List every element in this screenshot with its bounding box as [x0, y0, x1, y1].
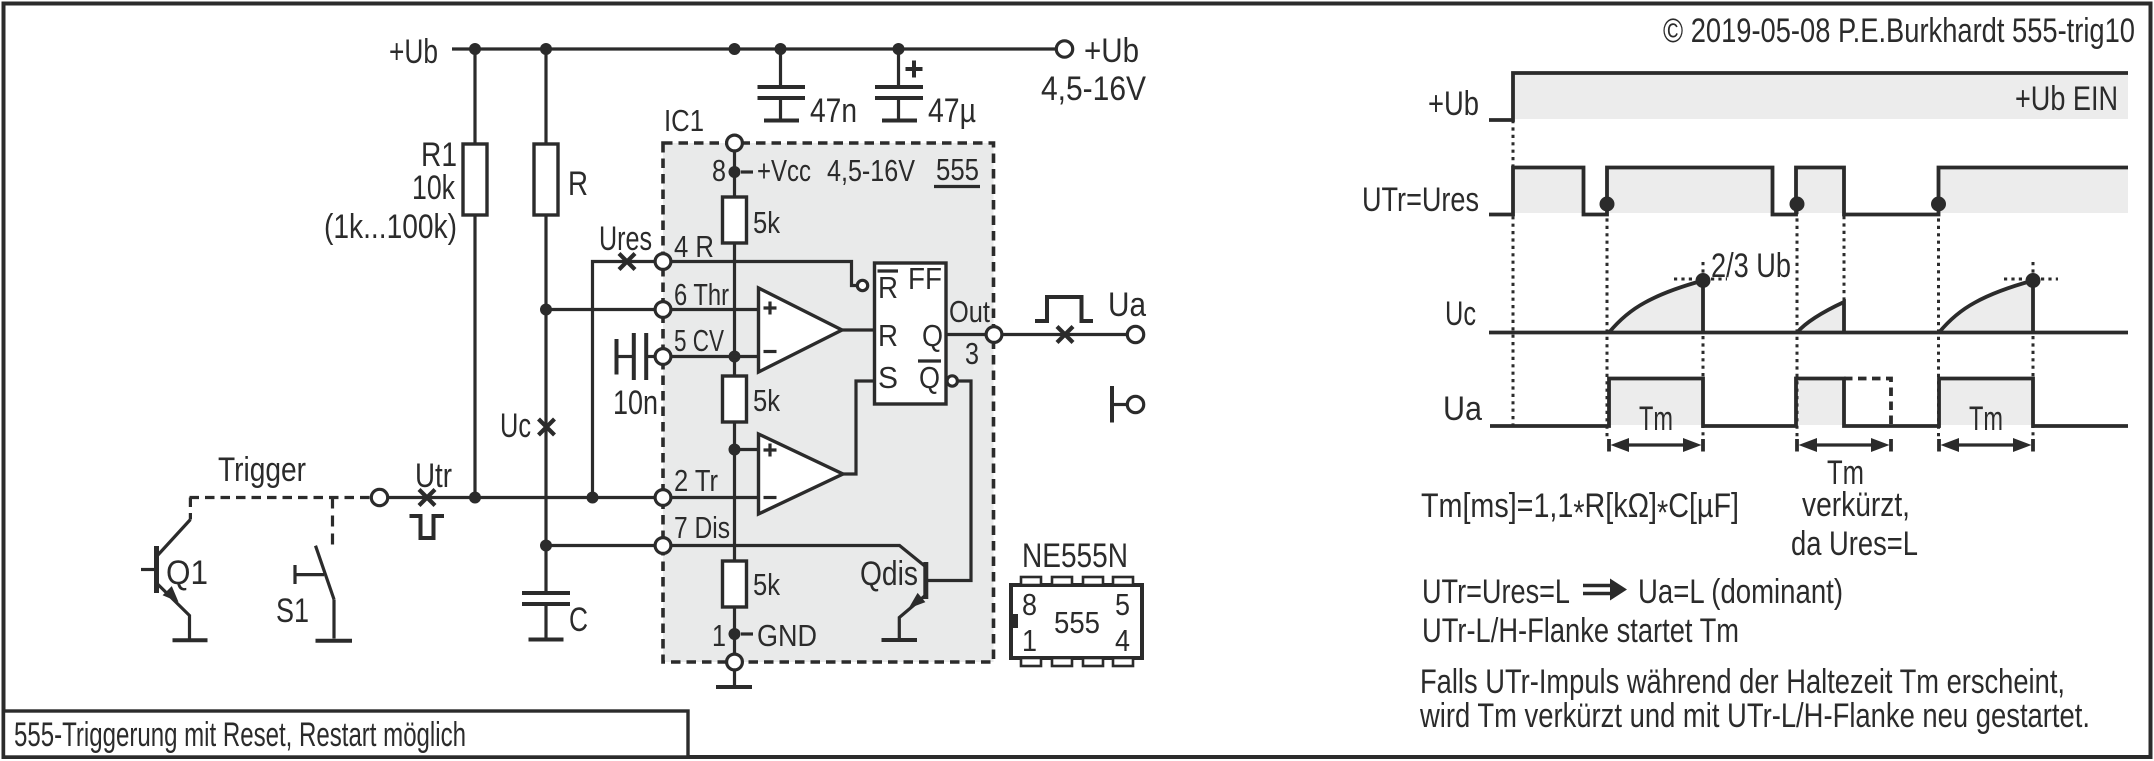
terminal Ua [1127, 326, 1143, 342]
R1 value labels [324, 136, 457, 246]
svg-text:(1k...100k): (1k...100k) [324, 208, 457, 246]
junction rail-47n [775, 43, 787, 55]
svg-text:UTr=Ures: UTr=Ures [1362, 181, 1479, 219]
text UTr=Ures=L implies [1422, 573, 1843, 611]
waveform Uc curve 2 [1797, 302, 1844, 333]
resistor 5k middle [723, 376, 747, 561]
capacitor C [522, 593, 570, 640]
svg-text:5k: 5k [753, 567, 780, 602]
svg-text:8: 8 [1022, 587, 1037, 622]
dotted 2/3 level right [2004, 278, 2058, 281]
bubble Q-bar output [947, 376, 957, 386]
pin 6 circle [655, 302, 671, 318]
positive pulse symbol [1035, 297, 1093, 321]
junction trigger-R1 [469, 492, 481, 504]
pin 8 labels [712, 152, 980, 188]
svg-text:Uc: Uc [500, 407, 531, 445]
svg-text:wird Tm verkürzt und mit UTr-L: wird Tm verkürzt und mit UTr-L/H-Flanke … [1419, 697, 2090, 735]
svg-text:+Vcc: +Vcc [757, 153, 811, 188]
svg-text:2/3 Ub: 2/3 Ub [1711, 247, 1791, 285]
svg-text:+Ub: +Ub [1084, 32, 1139, 70]
waveform Uc fill [1609, 281, 2033, 333]
capacitor 10n [617, 333, 656, 380]
terminal trigger input [371, 489, 387, 505]
waveform Uc curve 3 [1939, 281, 2033, 333]
wire comp2 out to FF S [843, 381, 875, 474]
svg-text:Ua=L (dominant): Ua=L (dominant) [1638, 573, 1843, 611]
dotted guide 1844 [1843, 216, 1846, 303]
svg-text:Q: Q [922, 318, 943, 353]
dot UTr edge 3 [1931, 197, 1946, 212]
svg-text:Qdis: Qdis [860, 555, 918, 593]
wire pin6 to comparator [670, 308, 758, 311]
svg-text:S1: S1 [276, 592, 309, 630]
dot Uc 2/3 right [2026, 273, 2041, 288]
dotted guide 1703 [1702, 262, 1705, 440]
junction R-Thr [540, 304, 552, 316]
arrow Tm 1 [1609, 438, 1703, 452]
junction rail-47u [893, 43, 905, 55]
waveform UTr=Ures [1489, 168, 2128, 215]
ground Q1 [173, 638, 208, 642]
svg-text:47n: 47n [810, 92, 857, 130]
svg-text:+Ub EIN: +Ub EIN [2015, 80, 2118, 118]
IC1 dashed box body [663, 143, 994, 662]
svg-text:Q: Q [919, 360, 940, 395]
waveform Ua fill [1609, 379, 2033, 425]
svg-text:UTr-L/H-Flanke startet Tm: UTr-L/H-Flanke startet Tm [1422, 612, 1739, 650]
wire divider to comp2 plus [735, 448, 759, 451]
junction pin8 [729, 166, 741, 178]
svg-text:6 Thr: 6 Thr [674, 277, 729, 312]
NE555N package [1011, 537, 1142, 666]
dot Uc 2/3 left [1696, 273, 1711, 288]
pin 8 circle [727, 135, 743, 151]
pin 2 circle [655, 490, 671, 506]
switch S1 [295, 498, 334, 639]
dotted guide 1513 [1512, 120, 1515, 426]
svg-text:47µ: 47µ [928, 92, 976, 130]
svg-text:1: 1 [712, 618, 726, 653]
svg-text:Falls UTr-Impuls während der H: Falls UTr-Impuls während der Haltezeit T… [1420, 663, 2065, 701]
ground S1 [316, 639, 353, 643]
svg-text:5k: 5k [753, 205, 780, 240]
dotted guide 2033 [2032, 262, 2035, 440]
wire pin2 to comparator minus [670, 496, 758, 499]
svg-text:© 2019-05-08 P.E.Burkhardt 555: © 2019-05-08 P.E.Burkhardt 555-trig10 [1663, 12, 2135, 50]
op-amp comparator 1 [759, 288, 843, 372]
ground under IC [716, 669, 752, 687]
svg-text:555-Triggerung mit Reset, Rest: 555-Triggerung mit Reset, Restart möglic… [14, 716, 466, 754]
wire Thr [546, 308, 656, 311]
svg-text:Ua: Ua [1443, 390, 1482, 428]
svg-text:5 CV: 5 CV [674, 323, 724, 358]
pin 7 circle [655, 538, 671, 554]
pin Out circle [986, 327, 1002, 343]
probe terminal below Ua [1112, 386, 1144, 423]
arrow Tm 3 [1939, 438, 2033, 452]
svg-text:4: 4 [1115, 623, 1130, 658]
op-amp comparator 2 [759, 434, 844, 514]
dotted 2/3 level left [1674, 278, 1727, 281]
waveform Uc baseline [1489, 331, 2128, 335]
svg-text:+Ub: +Ub [389, 33, 438, 71]
x-marker Utr [419, 490, 435, 506]
svg-text:R: R [878, 318, 898, 353]
wire top +Ub rail [452, 47, 1057, 50]
node +Ub 4,5-16V labels right [1041, 32, 1146, 108]
svg-text:UTr=Ures=L: UTr=Ures=L [1422, 573, 1570, 611]
wire pin8 to divider [733, 150, 736, 197]
junction divider 1/3 tap [729, 444, 741, 456]
junction rail-R1 [469, 43, 481, 55]
svg-text:4 R: 4 R [674, 229, 714, 264]
wire trigger dashed [190, 496, 372, 499]
capacitor 47u polarized [875, 49, 923, 121]
junction C-Dis [540, 540, 552, 552]
x-marker Ua [1057, 327, 1073, 343]
wire trigger to pin2 [388, 496, 656, 499]
svg-text:R: R [878, 270, 898, 305]
label Tm verkuerzt [1791, 454, 1918, 563]
waveform Ua dashed continuation [1844, 379, 1891, 427]
junction divider GND [729, 628, 741, 640]
wire Q to Out [946, 333, 987, 336]
svg-text:555: 555 [1054, 605, 1100, 640]
svg-text:Uc: Uc [1445, 295, 1476, 333]
wire pin4 to FF R-bar [670, 262, 856, 286]
svg-text:10n: 10n [613, 384, 658, 422]
node Ures [599, 220, 652, 258]
svg-text:Ures: Ures [599, 220, 652, 258]
title box [4, 711, 689, 757]
svg-text:C: C [569, 601, 588, 639]
transistor Qdis [899, 562, 926, 639]
dotted guide 1607 [1606, 211, 1609, 440]
svg-text:FF: FF [908, 261, 942, 296]
svg-text:da Ures=L: da Ures=L [1791, 525, 1918, 563]
svg-text:5k: 5k [753, 383, 780, 418]
x-marker Ures [619, 254, 635, 270]
junction rail-pin8 [729, 43, 741, 55]
svg-text:3: 3 [965, 336, 979, 371]
wire pin7 to Qdis collector [670, 546, 926, 568]
svg-text:GND: GND [757, 618, 817, 653]
wire Q-bar to Qdis base [928, 381, 972, 581]
svg-text:Tm: Tm [1969, 400, 2003, 438]
dotted guide 1797 [1796, 211, 1799, 440]
svg-text:IC1: IC1 [664, 103, 704, 138]
dot UTr edge 1 [1600, 197, 1615, 212]
svg-text:4,5-16V: 4,5-16V [1041, 70, 1146, 108]
junction divider CV tap [729, 351, 741, 363]
svg-text:R: R [568, 165, 588, 203]
svg-text:Tm: Tm [1639, 400, 1673, 438]
wire Out to Ua terminal [1001, 333, 1127, 336]
dotted guide 1938 [1937, 211, 1940, 440]
svg-text:S: S [878, 360, 898, 395]
svg-text:2 Tr: 2 Tr [674, 463, 718, 498]
pin 1 circle [727, 654, 743, 670]
capacitor 47n [758, 49, 806, 121]
pin 4 circle [655, 254, 671, 270]
junction rail-R [540, 43, 552, 55]
bubble FF R-bar input [857, 280, 867, 290]
svg-text:5: 5 [1115, 587, 1130, 622]
svg-text:verkürzt,: verkürzt, [1802, 486, 1910, 524]
svg-text:+Ub: +Ub [1428, 85, 1479, 123]
svg-text:1: 1 [1022, 623, 1037, 658]
svg-text:NE555N: NE555N [1022, 537, 1128, 575]
resistor 5k upper [723, 197, 747, 376]
resistor R [534, 49, 558, 592]
waveform +Ub fill [1513, 74, 2128, 119]
transistor Q1 [141, 498, 190, 639]
dot UTr edge 2 [1790, 197, 1805, 212]
wire comp1 out to FF R [842, 328, 875, 331]
svg-text:4,5-16V: 4,5-16V [827, 153, 915, 188]
svg-text:8: 8 [712, 153, 726, 188]
resistor R1 [463, 49, 487, 498]
pin 1 labels [712, 618, 817, 653]
svg-text:Q1: Q1 [166, 554, 208, 592]
svg-text:555: 555 [936, 152, 979, 187]
negative pulse symbol [410, 516, 445, 538]
terminal +Ub right [1056, 41, 1072, 57]
junction trigger-Ures [587, 492, 599, 504]
arrow Tm 2 [1797, 438, 1891, 452]
waveform +Ub [1489, 73, 2128, 120]
wire Dis to C [546, 544, 656, 547]
waveform Uc curve 1 [1609, 281, 1703, 333]
svg-text:Out: Out [949, 294, 990, 329]
pin 5 circle [655, 349, 671, 365]
waveform UTr fill [1513, 168, 2128, 213]
svg-text:7 Dis: 7 Dis [674, 510, 730, 545]
flip-flop FF [875, 261, 947, 404]
wire pin5 to comparator minus [670, 355, 758, 358]
resistor 5k lower [723, 561, 747, 662]
x-marker Uc [539, 419, 555, 435]
svg-text:Ua: Ua [1108, 286, 1146, 324]
svg-text:Trigger: Trigger [218, 451, 306, 489]
wire Ures to pin4 [593, 262, 656, 498]
svg-text:10k: 10k [412, 169, 456, 207]
ground Qdis [882, 638, 918, 642]
waveform Ua [1490, 379, 2128, 427]
